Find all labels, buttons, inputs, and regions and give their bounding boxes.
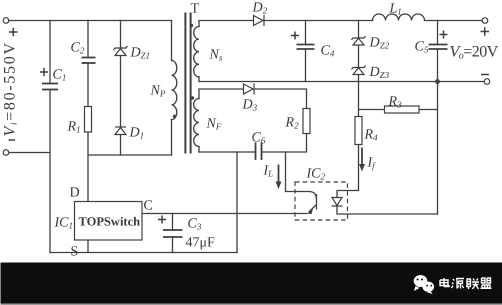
svg-text:C: C [144,199,153,214]
svg-text:Vo=20V: Vo=20V [450,44,499,62]
svg-text:47μF: 47μF [186,236,216,251]
svg-text:D: D [70,186,80,201]
svg-text:T: T [191,2,200,17]
svg-text:S: S [71,245,79,260]
svg-text:TOPSwitch: TOPSwitch [79,215,141,229]
